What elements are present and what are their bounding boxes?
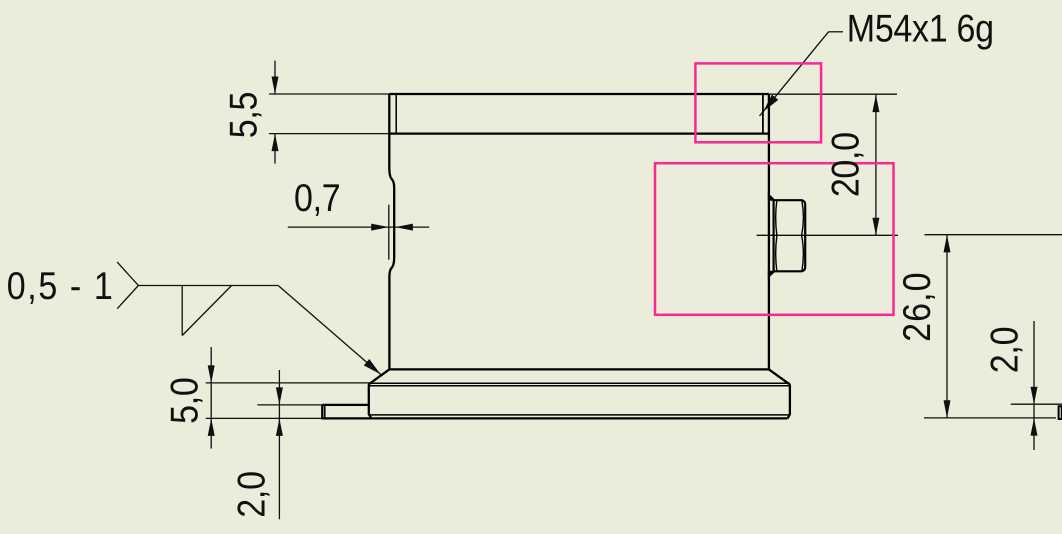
nut top chamfer triangle [768,193,776,201]
flange right chamfer [769,369,789,383]
dimension line 5,5 vertical [274,61,276,94]
svg-text:2,0: 2,0 [983,327,1026,373]
dimension line 2,0 right [1033,321,1035,450]
arrow 0,7 left [371,224,389,231]
top band top edge [389,93,769,95]
arrow 2,0 left top [276,387,283,405]
dimension line 2,0 left [278,370,280,519]
svg-text:0,7: 0,7 [294,177,340,220]
left wall with relief jog [389,94,394,369]
extension line 2,0 left top [257,404,322,406]
flange upper tangent line 2 [369,385,790,387]
arrow 2,0 right bottom [1031,418,1038,436]
arrow 2,0 right top [1031,387,1038,405]
svg-text:0,5 - 1: 0,5 - 1 [7,265,115,308]
dimension line 0,7 [288,226,429,228]
hex nut on thread [774,200,806,271]
arrow 20,0 top [872,95,879,113]
arrow chamfer leader [364,359,383,377]
extension line top-right for 20,0 [769,93,897,95]
svg-text:26,0: 26,0 [896,271,939,342]
extension line top-left for 5,5 (top edge level) [269,93,389,95]
dimension line 26,0 [946,235,948,418]
nut right face arcs [802,201,804,271]
tab left inner edge [324,405,326,419]
bottom lip tab top edge [322,404,369,406]
tab left edge [321,405,323,419]
part outline (thick) [321,94,790,418]
highlight box 1 (thread corner) [695,63,821,142]
arrow 2,0 left bottom [276,418,283,436]
weld symbol fillet triangle [181,286,183,336]
arrow 26,0 top [944,235,951,253]
flange lower tangent line [369,414,790,416]
chamfer leader line [278,286,380,375]
extension line 2,0 right top [1011,403,1062,405]
extension line for 5,5 (bottom edge level) [269,133,389,135]
arrow 5,0 bottom [208,418,215,436]
flange bottom face (incl. tab bottom) [321,417,787,419]
weld symbol reference line [138,285,278,287]
nut outline [774,200,806,271]
svg-text:5,0: 5,0 [163,378,206,424]
nut bottom chamfer triangle [768,271,776,279]
svg-text:M54x1 6g: M54x1 6g [847,7,994,50]
M54 leader line [760,32,829,116]
svg-text:20,0: 20,0 [824,132,867,197]
arrow 0,7 right [395,224,413,231]
arrow 20,0 bottom [872,218,879,236]
flange left edge [369,384,372,418]
band inner edge left [395,94,397,134]
extension line 5,0 bottom [206,417,322,419]
extension line 26,0 top [925,234,1062,236]
dimension line 5,0 [210,347,212,449]
svg-text:2,0: 2,0 [230,471,273,517]
svg-text:5,5: 5,5 [222,92,265,138]
extension line 0,7 (outer wall surface) [388,205,390,260]
thread end edge right [762,94,764,134]
nut centerline [757,234,898,236]
highlight box 2 (nut area) [655,163,894,315]
right edge mating part box [1058,406,1062,419]
arrow 26,0 bottom [944,400,951,418]
flange upper tangent line 1 [369,382,790,384]
dimension line 20,0 [875,94,877,235]
arrow 5,0 top [208,365,215,383]
right wall [768,94,770,369]
arrow 5,5 bottom [272,134,279,152]
extension line 5,0 top [206,382,370,384]
flange right edge [788,384,790,419]
arrow 5,5 top [272,77,279,95]
extension line bottom right (flange bottom level) [924,417,1056,419]
arrow M54 leader [760,95,778,115]
weld symbol tail [117,262,138,309]
nut left face arcs [776,201,777,271]
flange top face [389,368,769,370]
flange left chamfer [369,369,389,384]
top band bottom edge [389,132,769,134]
